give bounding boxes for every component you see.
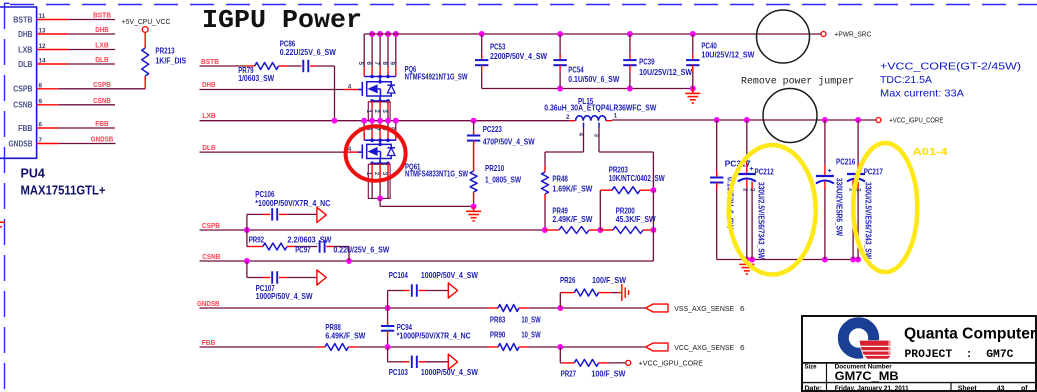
- inductor PL15 0.36uH_30A_ETQP4LR36WFC_SW: [544, 96, 656, 138]
- pin 12 LXB of PU4: [18, 41, 115, 55]
- svg-text:GM7C_MB: GM7C_MB: [835, 369, 899, 383]
- svg-text:DLB: DLB: [202, 143, 216, 152]
- resistor PR79 1/0603_SW: [238, 63, 288, 84]
- svg-text:CSPB: CSPB: [93, 80, 111, 89]
- svg-text:3: 3: [381, 109, 388, 113]
- Quanta logo: [843, 323, 891, 360]
- svg-text:PR92: PR92: [249, 235, 265, 245]
- svg-text:1: 1: [614, 113, 618, 120]
- svg-text:11: 11: [39, 13, 46, 20]
- capacitor PC223 470P/50V_4_SW: [467, 121, 535, 171]
- power terminal +5V_CPU_VCC: [122, 17, 171, 48]
- capacitor PC104 1000P/50V_4_SW: [388, 270, 478, 308]
- svg-text:9: 9: [39, 98, 43, 105]
- svg-text:1000P/50V_4_SW: 1000P/50V_4_SW: [421, 367, 478, 377]
- resistor PR210 1_0805_SW: [470, 163, 521, 209]
- svg-text:+: +: [828, 168, 832, 175]
- svg-text:*1000P/50V/X7R_4_NC: *1000P/50V/X7R_4_NC: [255, 198, 330, 208]
- pin 13 DHB of PU4: [18, 25, 115, 39]
- off-page connector VCC_AXG_SENSE: [646, 343, 745, 352]
- pin 14 DLB of PU4: [18, 55, 115, 69]
- svg-text:LXB: LXB: [18, 45, 33, 54]
- svg-text:VSS_AXG_SENSE: VSS_AXG_SENSE: [674, 304, 734, 313]
- svg-text:1_0805_SW: 1_0805_SW: [485, 175, 521, 185]
- svg-text:NTMFS4921NT1G_SW: NTMFS4921NT1G_SW: [405, 72, 468, 82]
- connector PU4 body: [0, 7, 37, 158]
- svg-text:Remove power jumper: Remove power jumper: [741, 76, 854, 88]
- power terminal +VCC_iGPU_CORE: [876, 116, 943, 125]
- pin 6 FBB of PU4: [18, 119, 115, 133]
- svg-text:6: 6: [740, 304, 745, 313]
- svg-text:PC217: PC217: [864, 167, 883, 177]
- wire cap bank bottom rail: [482, 86, 696, 92]
- svg-text:PC212: PC212: [755, 167, 774, 177]
- page top dashed border: [10, 4, 1037, 6]
- wire DHB: [200, 80, 345, 90]
- svg-text:100/F_SW: 100/F_SW: [592, 275, 626, 285]
- resistor PR90 10_SW: [488, 329, 540, 350]
- svg-text:DLB: DLB: [95, 55, 109, 64]
- svg-text:PC103: PC103: [389, 367, 408, 377]
- svg-text:PC54: PC54: [568, 65, 584, 75]
- annotation red circle around PQ61: [346, 126, 406, 180]
- svg-text:6: 6: [740, 343, 745, 352]
- svg-text:2: 2: [373, 172, 380, 176]
- svg-text:PU4: PU4: [21, 167, 45, 181]
- svg-text:PR26: PR26: [560, 275, 576, 285]
- svg-text:+: +: [750, 166, 754, 173]
- wire DLB: [200, 143, 345, 152]
- svg-text:DHB: DHB: [202, 80, 216, 89]
- resistor PR88 6.49K/F_SW: [317, 322, 366, 351]
- resistor PR48 1.69K/F_SW: [542, 166, 593, 230]
- svg-text:10K/NTC/0402_SW: 10K/NTC/0402_SW: [609, 173, 665, 183]
- svg-text:PR48: PR48: [552, 174, 568, 184]
- transistor PQ6 NTMFS4921NT1G_SW: [344, 31, 468, 121]
- svg-text:CSNB: CSNB: [93, 96, 111, 105]
- wire CSNB right vertical: [652, 190, 654, 261]
- svg-text:PC39: PC39: [639, 57, 655, 67]
- pin 9 CSNB of PU4: [13, 96, 115, 110]
- svg-text:+5V_CPU_VCC: +5V_CPU_VCC: [122, 17, 171, 26]
- rotated ground at PR26: [618, 284, 629, 301]
- svg-text:GNDSB: GNDSB: [197, 299, 220, 308]
- resistor PR92 2.2/0603_SW with capacitor PC97: [247, 230, 390, 261]
- svg-text:3: 3: [381, 172, 388, 176]
- svg-text:2: 2: [741, 188, 748, 192]
- label PU4: [21, 167, 45, 181]
- annotation A01-4: [913, 147, 949, 158]
- capacitor PC216 330U/2V/ESR6_SW: [816, 120, 856, 260]
- capacitor PC39 10U/25V/12_SW: [623, 34, 692, 89]
- note +VCC_CORE spec: [880, 61, 1021, 100]
- svg-text:+VCC_iGPU_CORE: +VCC_iGPU_CORE: [889, 116, 943, 125]
- svg-text:PR27: PR27: [561, 369, 577, 379]
- svg-text:1000P/50V_4_SW: 1000P/50V_4_SW: [256, 291, 313, 301]
- title block frame: [802, 316, 1037, 392]
- wire +VCC_iGPU_CORE rail: [612, 117, 876, 123]
- svg-text:43: 43: [997, 386, 1005, 392]
- power terminal +PWR_SRC: [821, 30, 872, 39]
- page left dashed border: [5, 3, 10, 392]
- svg-text:7: 7: [373, 62, 380, 66]
- annotation circle top (power jumper): [757, 10, 810, 63]
- clipped symbol at left border: [0, 222, 5, 227]
- svg-text:TDC:21.5A: TDC:21.5A: [880, 74, 932, 86]
- svg-text:DHB: DHB: [95, 25, 109, 34]
- capacitor PC103 1000P/50V_4_SW: [388, 347, 478, 377]
- svg-text:+PWR_SRC: +PWR_SRC: [835, 30, 872, 39]
- capacitor PC54 0.1U/50V_6_SW: [553, 34, 619, 89]
- svg-text:7: 7: [39, 137, 43, 144]
- svg-text:PC223: PC223: [483, 124, 502, 134]
- svg-text:IGPU Power: IGPU Power: [202, 5, 362, 35]
- svg-text:BSTB: BSTB: [13, 15, 33, 24]
- title block text: [805, 326, 1037, 392]
- svg-text:Quanta Computer: Quanta Computer: [904, 326, 1036, 343]
- svg-text:2: 2: [566, 114, 570, 121]
- annotation circle bottom (power jumper): [763, 89, 817, 143]
- svg-text:1: 1: [365, 109, 372, 113]
- capacitor PC212 330U/2.5V/ES6/7343_SW: [738, 120, 774, 260]
- svg-text:12: 12: [39, 43, 47, 50]
- svg-text:1K/F_DIS: 1K/F_DIS: [155, 56, 186, 66]
- svg-text:CSNB: CSNB: [202, 252, 220, 261]
- svg-text:+VCC_iGPU_CORE: +VCC_iGPU_CORE: [639, 358, 703, 367]
- svg-text:Size: Size: [805, 364, 818, 370]
- svg-text:1: 1: [365, 172, 372, 176]
- wire PL15 pin4 sense tap: [545, 128, 584, 167]
- svg-text:0.1U/50V_6_SW: 0.1U/50V_6_SW: [568, 74, 619, 84]
- label MAX17511GTL+: [21, 184, 106, 198]
- svg-text:10_SW: 10_SW: [521, 314, 540, 324]
- svg-text:330U/2V/ESR6_SW: 330U/2V/ESR6_SW: [835, 178, 845, 236]
- svg-text:0.22U/25V_6_SW: 0.22U/25V_6_SW: [333, 244, 389, 254]
- svg-text:330U/2.5V/ES6/7343_SW: 330U/2.5V/ES6/7343_SW: [864, 182, 874, 259]
- svg-text:PROJECT : GM7C: PROJECT : GM7C: [905, 349, 1014, 361]
- pin 11 BSTB of PU4: [13, 11, 115, 25]
- capacitor PC40 10U/25V/12_SW: [686, 34, 754, 89]
- svg-text:6.49K/F_SW: 6.49K/F_SW: [325, 331, 365, 341]
- svg-text:PR90: PR90: [490, 329, 506, 339]
- svg-text:GNDSB: GNDSB: [91, 135, 114, 144]
- svg-text:2200P/50V_4_SW: 2200P/50V_4_SW: [490, 51, 547, 61]
- transistor PQ61 NTMFS4833NT1G_SW: [344, 118, 474, 207]
- resistor PR203 10K/NTC/0402_SW: [600, 165, 664, 231]
- svg-text:100/F_SW: 100/F_SW: [591, 369, 625, 379]
- svg-text:NTMFS4833NT1G_SW: NTMFS4833NT1G_SW: [405, 169, 468, 179]
- svg-text:330U/2.5V/ES6/7343_SW: 330U/2.5V/ES6/7343_SW: [757, 182, 767, 259]
- svg-text:8: 8: [381, 62, 388, 66]
- svg-text:LXB: LXB: [95, 41, 109, 50]
- svg-text:Max current: 33A: Max current: 33A: [880, 88, 964, 100]
- wire LXB: [200, 111, 570, 124]
- svg-text:3: 3: [592, 134, 599, 138]
- pin 7 GNDSB of PU4: [9, 135, 116, 149]
- svg-text:FBB: FBB: [95, 119, 109, 128]
- annotation yellow ellipse around PC217: [853, 143, 917, 272]
- power terminal +VCC_iGPU_CORE at PR27: [626, 358, 703, 367]
- svg-text:6: 6: [365, 62, 372, 66]
- wire CSPB: [200, 221, 548, 233]
- svg-text:PC216: PC216: [836, 157, 855, 167]
- svg-text:FBB: FBB: [202, 338, 216, 347]
- ground below PC40: [685, 89, 700, 104]
- svg-text:PR213: PR213: [155, 46, 174, 56]
- svg-text:BSTB: BSTB: [93, 11, 111, 20]
- capacitor PC217 330U/2.5V/ES6/7343_SW: [847, 120, 883, 260]
- resistor PR200 45.3K/F_SW: [600, 206, 656, 234]
- resistor PR27 100/F_SW: [560, 347, 625, 379]
- svg-text:LXB: LXB: [202, 111, 216, 120]
- svg-text:470P/50V_4_SW: 470P/50V_4_SW: [483, 136, 535, 146]
- svg-text:9: 9: [389, 62, 396, 66]
- svg-text:4: 4: [348, 83, 352, 90]
- svg-text:MAX17511GTL+: MAX17511GTL+: [21, 184, 106, 198]
- svg-text:45.3K/F_SW: 45.3K/F_SW: [616, 214, 656, 224]
- svg-text:10_SW: 10_SW: [521, 329, 540, 339]
- svg-text:PC53: PC53: [490, 42, 506, 52]
- capacitor PC94 *1000P/50V/X7R_4_NC: [381, 308, 471, 347]
- svg-text:10U/25V/12_SW: 10U/25V/12_SW: [701, 50, 754, 60]
- svg-text:+VCC_CORE(GT-2/45W): +VCC_CORE(GT-2/45W): [880, 61, 1021, 73]
- wire PL15 pin3 sense tap: [599, 128, 653, 191]
- off-page connector VSS_AXG_SENSE: [646, 304, 745, 313]
- annotation text Remove power jumper: [741, 76, 854, 88]
- svg-text:3: 3: [749, 188, 756, 192]
- svg-text:5: 5: [357, 62, 364, 66]
- capacitor PC86 0.22U/25V_6_SW: [280, 39, 336, 73]
- svg-text:2.2/0603_SW: 2.2/0603_SW: [287, 235, 331, 245]
- svg-text:A01-4: A01-4: [913, 147, 949, 158]
- svg-text:CSPB: CSPB: [202, 221, 220, 230]
- capacitor PC106 *1000P/50V/X7R_4_NC: [247, 189, 330, 230]
- svg-text:PR83: PR83: [490, 314, 506, 324]
- wire FBB: [200, 338, 646, 350]
- svg-text:10U/25V/12_SW: 10U/25V/12_SW: [639, 67, 692, 77]
- svg-text:1/0603_SW: 1/0603_SW: [238, 73, 274, 83]
- svg-text:*1000P/50V/X7R_4_NC: *1000P/50V/X7R_4_NC: [397, 331, 471, 341]
- svg-text:Date:: Date:: [805, 386, 823, 392]
- resistor PR83 10_SW: [488, 305, 540, 325]
- svg-text:DLB: DLB: [18, 60, 33, 69]
- svg-text:DHB: DHB: [18, 30, 33, 39]
- svg-text:BSTB: BSTB: [201, 57, 219, 66]
- svg-text:6: 6: [39, 122, 43, 129]
- svg-text:Friday, January 21, 2011: Friday, January 21, 2011: [835, 386, 909, 392]
- svg-text:FBB: FBB: [18, 124, 33, 133]
- ground below PR210: [466, 206, 481, 221]
- svg-text:13: 13: [39, 28, 47, 35]
- wire CSNB: [200, 252, 654, 264]
- svg-text:PC104: PC104: [389, 270, 408, 280]
- wire BSTB: [200, 57, 335, 121]
- svg-text:of: of: [1021, 386, 1028, 392]
- svg-text:VCC_AXG_SENSE: VCC_AXG_SENSE: [674, 343, 734, 352]
- svg-text:2.49K/F_SW: 2.49K/F_SW: [552, 214, 592, 224]
- svg-text:Sheet: Sheet: [958, 386, 978, 392]
- svg-text:0.36uH_30A_ETQP4LR36WFC_SW: 0.36uH_30A_ETQP4LR36WFC_SW: [544, 103, 656, 113]
- svg-text:0.22U/25V_6_SW: 0.22U/25V_6_SW: [280, 47, 336, 57]
- svg-text:PR210: PR210: [485, 163, 504, 173]
- wire +PWR_SRC top rail: [364, 31, 821, 37]
- wire GNDSB: [197, 299, 646, 311]
- svg-text:PC97: PC97: [295, 244, 311, 254]
- svg-text:GNDSB: GNDSB: [9, 139, 33, 148]
- ground below PC212: [739, 260, 754, 275]
- svg-text:14: 14: [39, 58, 47, 65]
- wire output cap ground rail: [717, 257, 861, 263]
- resistor PR213 1K/F_DIS: [142, 46, 187, 89]
- annotation yellow ellipse around PC212: [729, 145, 816, 274]
- resistor PR26 100/F_SW: [560, 275, 626, 308]
- pin 8 CSPB of PU4: [13, 80, 145, 94]
- capacitor PC53 2200P/50V_4_SW: [475, 34, 547, 89]
- title IGPU Power: [202, 5, 362, 35]
- svg-text:1000P/50V_4_SW: 1000P/50V_4_SW: [421, 270, 478, 280]
- capacitor PC317 0.1U/50V_6_SW: [710, 120, 751, 260]
- svg-text:2: 2: [373, 109, 380, 113]
- svg-text:8: 8: [39, 82, 43, 89]
- capacitor PC107 1000P/50V_4_SW: [247, 261, 326, 301]
- svg-text:1.69K/F_SW: 1.69K/F_SW: [552, 184, 592, 194]
- svg-text:CSNB: CSNB: [13, 101, 33, 110]
- svg-text:CSPB: CSPB: [13, 85, 33, 94]
- resistor PR49 2.49K/F_SW: [545, 206, 603, 234]
